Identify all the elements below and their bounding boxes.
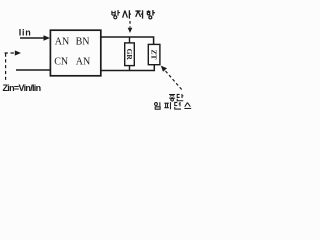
svg-text:AN: AN bbox=[76, 57, 90, 68]
wire input current arrow bbox=[20, 37, 45, 39]
label jongdan (termination) bbox=[169, 94, 183, 101]
wire top right bbox=[101, 37, 154, 44]
svg-text:CN: CN bbox=[54, 57, 68, 68]
svg-text:Zin=Vin/Iin: Zin=Vin/Iin bbox=[3, 83, 41, 93]
dashed leader line vertical bbox=[5, 54, 7, 81]
dashed arrow looking into Zin bbox=[5, 52, 16, 54]
resistor GR (radiation resistance) bbox=[125, 43, 135, 66]
wire bottom-left stub bbox=[16, 69, 50, 71]
svg-text:AN: AN bbox=[55, 36, 69, 47]
svg-text:GR: GR bbox=[125, 49, 134, 61]
impedance ZT (termination impedance) bbox=[148, 44, 160, 64]
label impedance bbox=[154, 102, 191, 109]
label bangsa jeohang (radiation resistance) bbox=[112, 10, 155, 19]
dashed callout arrow to GR bbox=[129, 21, 131, 28]
dashed callout arrow to ZT bbox=[166, 71, 183, 91]
svg-text:ZT: ZT bbox=[150, 49, 159, 59]
wire bottom right bbox=[101, 65, 155, 71]
wire GR top lead bbox=[129, 37, 131, 43]
svg-text:Iin: Iin bbox=[19, 28, 32, 38]
two-port network box N bbox=[50, 30, 100, 76]
wire GR bottom lead bbox=[129, 65, 131, 70]
svg-text:BN: BN bbox=[76, 36, 90, 47]
